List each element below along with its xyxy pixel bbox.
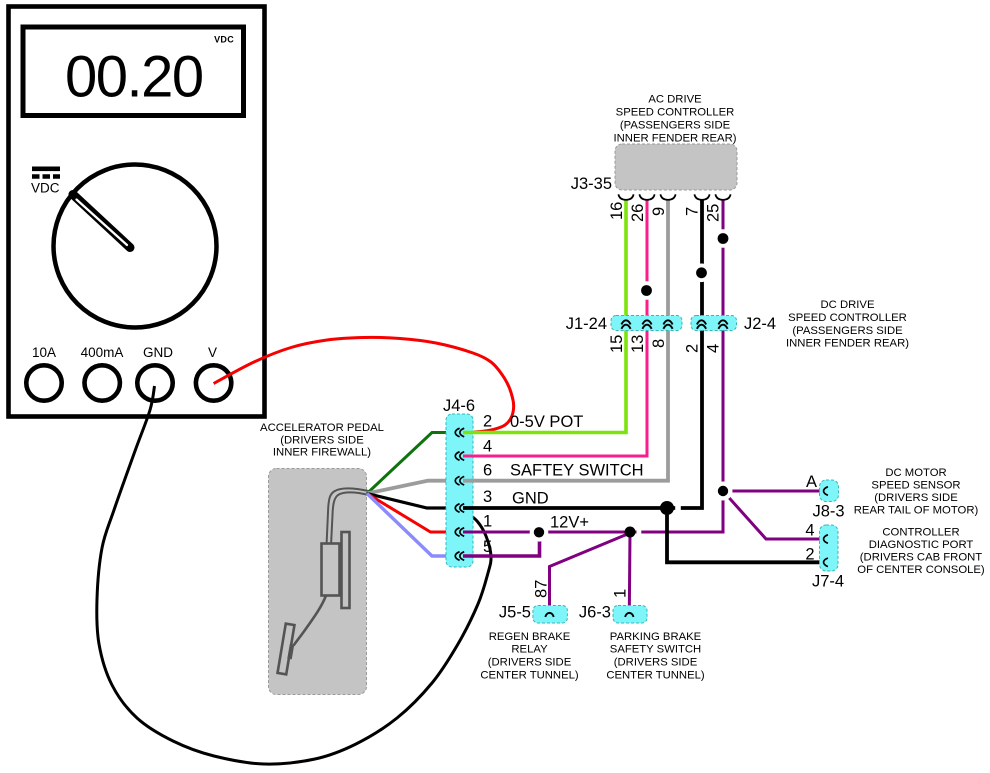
wire pedal to pin1 red [367,494,457,533]
pedal sensor body [322,544,340,596]
svg-text:J4-6: J4-6 [443,397,475,415]
svg-text:V: V [208,345,217,360]
DC symbol solid bar [32,167,60,172]
svg-text:15: 15 [608,335,626,353]
svg-text:SPEED CONTROLLER: SPEED CONTROLLER [616,107,735,119]
wire J4-6 pin2 to J1-24 pin15 chartreuse [463,200,626,433]
pin 5 socket [455,552,464,561]
pedal lever arm [294,596,327,646]
wire node to J5-5 purple [550,533,631,612]
svg-text:3: 3 [483,488,492,506]
svg-text:10A: 10A [32,345,56,360]
rotary dial [54,165,217,328]
wire J4-6 pin4 to J1-24 pin13 pink [463,200,647,456]
pin 4 socket [455,452,464,461]
terminal jack V [196,365,231,400]
svg-text:(DRIVERS SIDE: (DRIVERS SIDE [874,492,958,504]
svg-text:1: 1 [483,513,492,531]
svg-text:RELAY: RELAY [511,644,548,656]
J7-4 pin 2 socket [824,558,828,567]
svg-text:CONTROLLER: CONTROLLER [882,527,959,539]
junction node 12V+/pin5 [530,523,549,542]
svg-text:SAFETY SWITCH: SAFETY SWITCH [610,644,701,656]
connector J8-3 body [820,480,839,502]
connector J1-24 body [611,316,682,331]
svg-text:J8-3: J8-3 [812,503,844,521]
svg-text:(DRIVERS CAB FRONT: (DRIVERS CAB FRONT [860,552,982,564]
J1-24 pin sockets [621,320,672,329]
pedal cable lower line [331,492,368,543]
connector J6-3 body [613,606,647,624]
splice node black wire [692,264,711,283]
svg-text:(DRIVERS SIDE: (DRIVERS SIDE [280,435,364,447]
dial pointer needle [73,195,130,248]
connector J2-4 body [691,316,737,331]
accelerator pedal enclosure box [269,469,367,695]
svg-text:7: 7 [684,207,702,216]
terminal jack GND [137,365,172,400]
svg-text:J1-24: J1-24 [566,315,607,333]
svg-text:(DRIVERS SIDE: (DRIVERS SIDE [614,657,698,669]
J8-3 pin A socket [824,487,828,496]
svg-text:2: 2 [805,546,814,564]
wire pedal to pin6 gray [367,481,457,494]
svg-text:6: 6 [483,462,492,480]
splice node purple wire [714,229,733,248]
svg-text:SPEED CONTROLLER: SPEED CONTROLLER [788,312,907,324]
multimeter M1 body [9,7,265,417]
wire node to J7-4 pin4 purple [723,491,825,539]
terminal jack 400mA [85,365,120,400]
wire pedal to pin3 black [367,494,457,509]
svg-text:DIAGNOSTIC PORT: DIAGNOSTIC PORT [869,539,974,551]
svg-text:INNER FENDER REAR): INNER FENDER REAR) [613,133,736,145]
svg-text:12V+: 12V+ [550,514,589,532]
pedal mounting plate [342,532,350,608]
svg-text:REGEN BRAKE: REGEN BRAKE [489,631,571,643]
svg-text:2: 2 [684,344,702,353]
connector J7-4 body [820,525,839,571]
pin 2 socket [455,428,464,437]
svg-text:DC MOTOR: DC MOTOR [885,467,946,479]
wire J4-6 pin3 to J2-4 pin2 black [463,200,702,508]
J3-35 pin sockets [618,194,730,200]
svg-text:2: 2 [483,413,492,431]
connector J5-5 body [533,606,568,624]
wire pedal to pin2 dark green [367,433,457,494]
svg-text:5: 5 [483,538,492,556]
wire node to J6-3 purple [628,532,632,612]
wire node to J7-4 pin2 black [667,508,825,562]
DC symbol dashed bar [32,174,60,179]
pin 1 socket [455,528,464,537]
svg-text:9: 9 [650,207,668,216]
svg-text:VDC: VDC [214,35,234,45]
svg-text:REAR TAIL OF MOTOR): REAR TAIL OF MOTOR) [854,505,979,517]
svg-text:13: 13 [629,335,647,353]
J6-3 pin socket [625,613,633,617]
svg-text:0-5V POT: 0-5V POT [510,413,583,431]
svg-text:8: 8 [650,339,668,348]
red test lead wire from V jack to J4-6 pin 2 [214,337,514,432]
svg-text:J7-4: J7-4 [812,573,844,591]
svg-text:4: 4 [805,522,814,540]
svg-text:(DRIVERS SIDE: (DRIVERS SIDE [488,657,572,669]
svg-text:PARKING BRAKE: PARKING BRAKE [610,631,702,643]
svg-text:GND: GND [512,490,549,508]
svg-text:87: 87 [533,580,551,598]
wire J4-6 pin1 12V+ to J2-4 pin4 purple [463,200,723,532]
svg-text:4: 4 [483,438,492,456]
svg-text:16: 16 [608,202,626,220]
J4-6 pin symbols [455,428,464,560]
connector J3-35 body [615,144,737,190]
svg-text:J3-35: J3-35 [571,175,612,193]
connector J4-6 body [446,414,473,567]
multimeter display [23,27,244,116]
svg-text:CENTER TUNNEL): CENTER TUNNEL) [606,670,705,682]
terminal jack 10A [26,365,61,400]
junction node GND/J7-4 [675,504,681,513]
svg-text:DC DRIVE: DC DRIVE [821,299,875,311]
svg-text:SAFTEY SWITCH: SAFTEY SWITCH [510,462,644,480]
pedal pad [278,624,295,675]
black test lead wire from GND jack to J4-6 pin 3 [97,386,491,764]
svg-text:GND: GND [143,345,173,360]
svg-text:400mA: 400mA [81,345,124,360]
svg-text:ACCELERATOR PEDAL: ACCELERATOR PEDAL [260,422,384,434]
junction node 12V+/brakes [637,529,642,536]
svg-text:INNER FIREWALL): INNER FIREWALL) [273,447,371,459]
J7-4 pin 4 socket [824,535,828,544]
pin 6 socket [455,476,464,485]
pin 3 socket [455,504,464,513]
svg-text:OF CENTER CONSOLE): OF CENTER CONSOLE) [857,564,985,576]
svg-text:J2-4: J2-4 [744,315,776,333]
svg-text:25: 25 [705,204,723,222]
junction node purple/J8-3 [714,482,733,501]
svg-text:J5-5: J5-5 [499,604,531,622]
pedal cable upper line [327,488,369,543]
svg-text:VDC: VDC [31,181,60,196]
svg-text:(PASSENGERS SIDE: (PASSENGERS SIDE [620,120,731,132]
wire node to J8-3 pin A purple [723,490,825,493]
svg-text:(PASSENGERS SIDE: (PASSENGERS SIDE [792,325,903,337]
svg-text:1: 1 [612,589,630,598]
J2-4 pin sockets [697,320,728,329]
wire J4-6 pin5 to 12V+ node purple [463,532,540,556]
svg-text:A: A [806,473,817,491]
splice node pink wire [637,281,656,300]
svg-text:J6-3: J6-3 [579,604,611,622]
wire J4-6 pin6 to J1-24 pin8 gray [463,200,668,481]
svg-text:CENTER TUNNEL): CENTER TUNNEL) [480,670,579,682]
svg-text:26: 26 [629,204,647,222]
svg-text:00.20: 00.20 [65,45,203,110]
svg-text:AC DRIVE: AC DRIVE [648,94,702,106]
wire pedal to pin5 periwinkle [367,494,457,557]
svg-text:SPEED SENSOR: SPEED SENSOR [871,480,960,492]
svg-text:INNER FENDER REAR): INNER FENDER REAR) [786,338,909,350]
svg-text:4: 4 [705,344,723,353]
J5-5 pin socket [545,613,553,617]
